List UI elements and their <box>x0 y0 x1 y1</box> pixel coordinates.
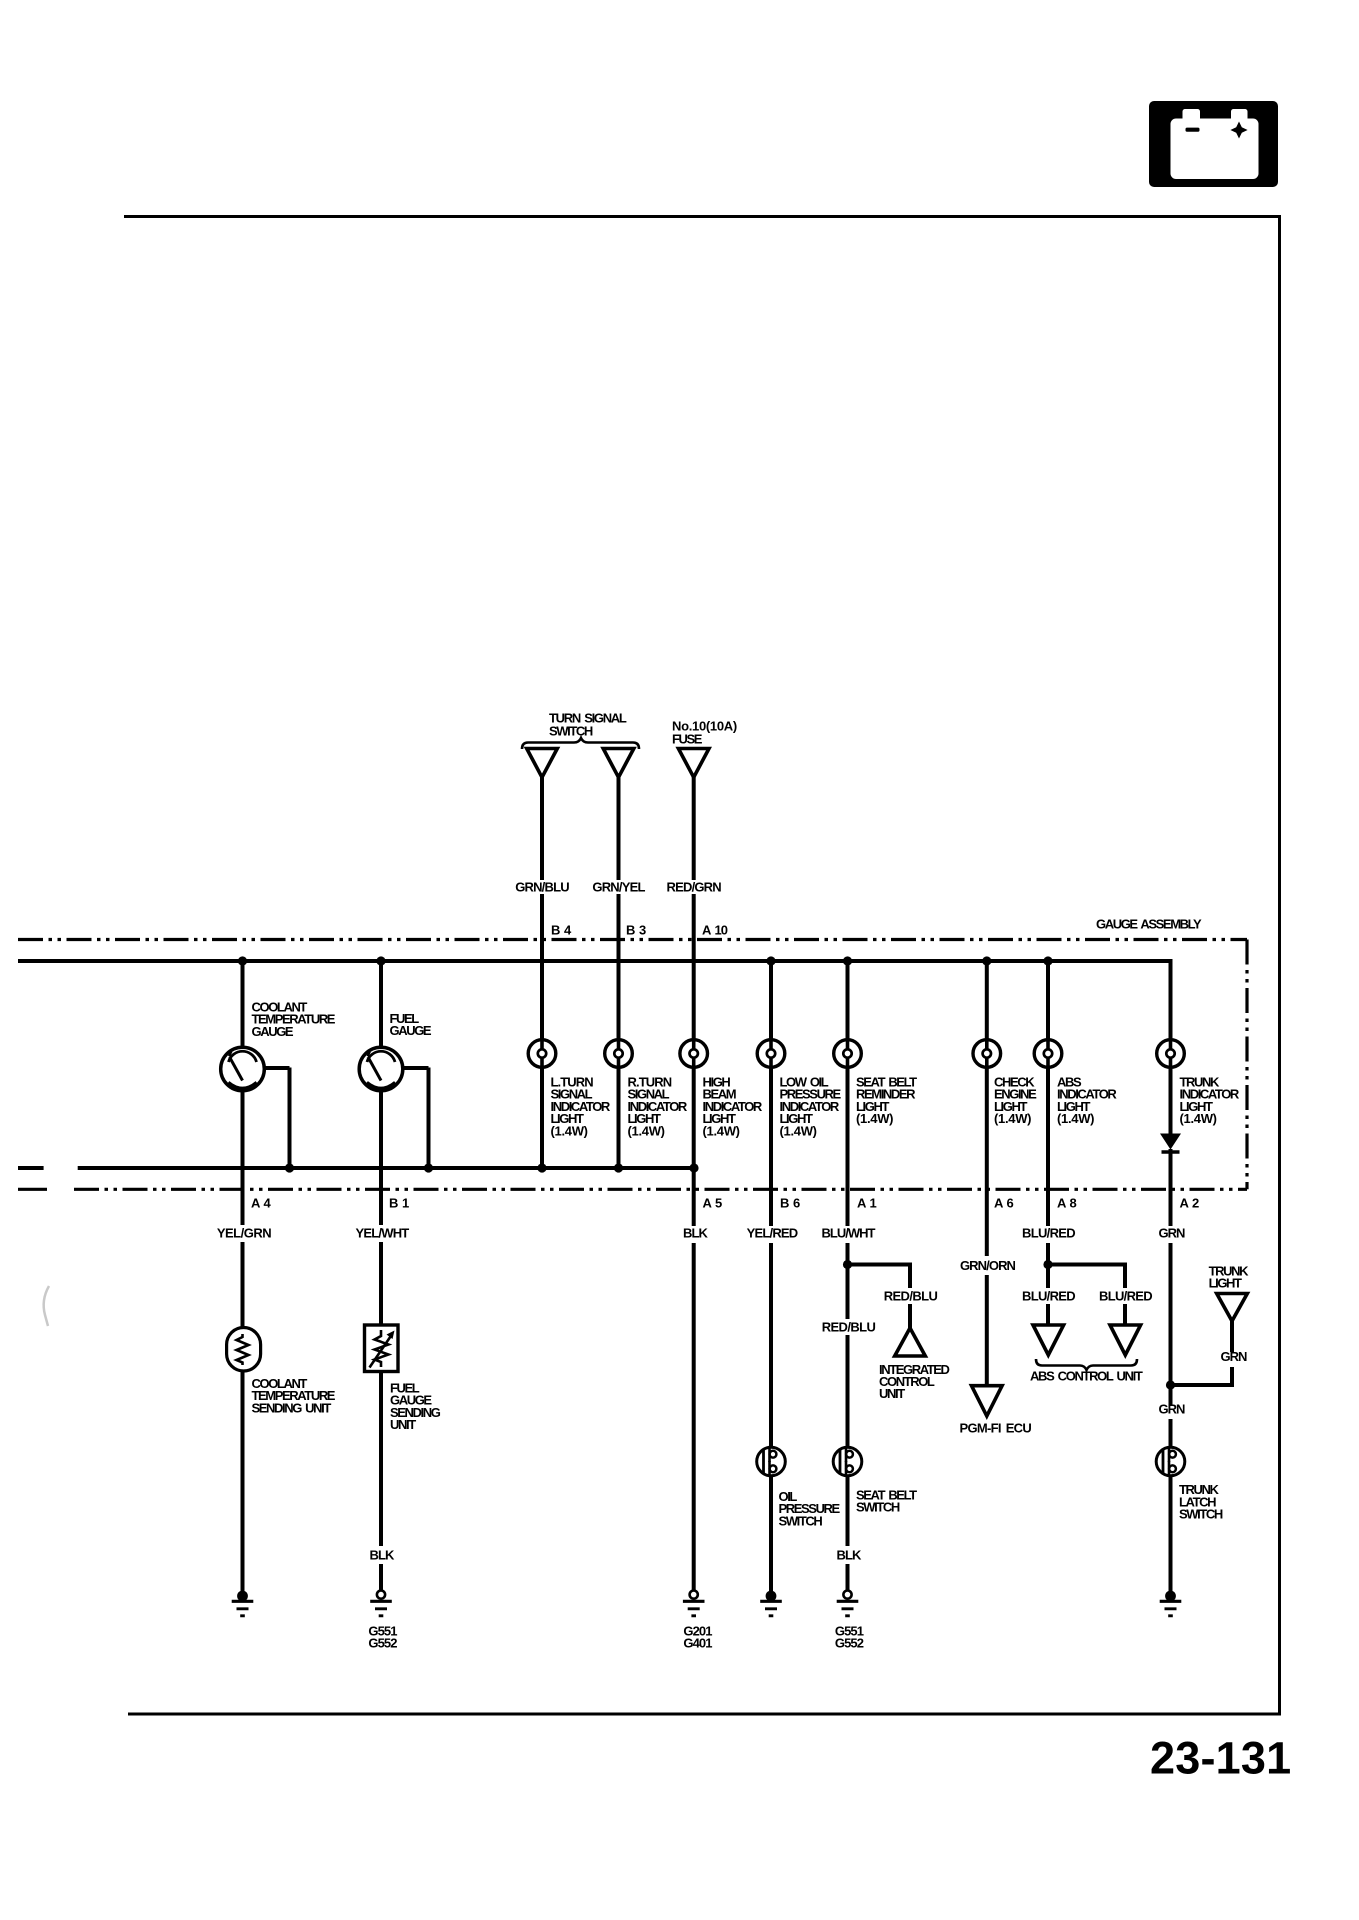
svg-text:G552: G552 <box>368 1636 397 1651</box>
svg-text:SWITCH: SWITCH <box>1179 1507 1223 1522</box>
label A5 <box>703 1196 723 1211</box>
wire A8 BLU/RED vertical <box>1046 961 1050 1327</box>
svg-text:A 4: A 4 <box>251 1196 272 1211</box>
label RED/BLU (main) <box>822 1320 876 1335</box>
svg-text:(1.4W): (1.4W) <box>1180 1111 1217 1126</box>
wire A1 branch to integrated control unit <box>846 1263 911 1330</box>
node dots on ground bus <box>285 1163 699 1172</box>
wire B6 YEL/RED vertical <box>769 961 773 1449</box>
node A1 branch <box>843 1260 852 1269</box>
power bus (top solid) <box>18 959 1173 963</box>
fuel gauge sending unit (variable resistor) <box>365 1325 399 1372</box>
coolant temperature sending unit (thermistor) <box>227 1328 261 1372</box>
node A8 branch <box>1043 1260 1052 1269</box>
wire trunk latch switch to ground <box>1169 1475 1173 1593</box>
svg-text:GAUGE: GAUGE <box>390 1023 432 1038</box>
wire fuel gauge to ground bus (loop) <box>402 1068 429 1169</box>
wire diode to A2 / GRN <box>1169 1149 1173 1387</box>
svg-text:(1.4W): (1.4W) <box>628 1123 665 1138</box>
label No.10(10A) FUSE <box>672 719 737 747</box>
svg-text:(1.4W): (1.4W) <box>780 1123 817 1138</box>
svg-text:LIGHT: LIGHT <box>1209 1276 1242 1291</box>
label SEAT BELT REMINDER LIGHT (1.4W) <box>856 1075 917 1127</box>
label FUEL GAUGE SENDING UNIT <box>390 1381 441 1433</box>
label TURN SIGNAL SWITCH <box>549 711 627 739</box>
svg-text:BLK: BLK <box>683 1226 709 1241</box>
svg-text:RED/BLU: RED/BLU <box>822 1320 876 1335</box>
fuel gauge (meter symbol) <box>359 1047 403 1091</box>
wire RED/GRN (A10 vertical, upper) <box>692 775 696 1040</box>
svg-text:A 8: A 8 <box>1057 1196 1077 1211</box>
label B6 <box>780 1196 800 1211</box>
wire coolant gauge sender side (A4 vertical) <box>241 1091 245 1329</box>
svg-text:B 1: B 1 <box>389 1196 409 1211</box>
page border right <box>1278 215 1281 1714</box>
label YEL/GRN <box>217 1226 271 1241</box>
label BLU/RED (left pin) <box>1022 1289 1075 1304</box>
wire GRN/BLU (B4 vertical, upper) <box>540 775 544 1040</box>
label YEL/WHT <box>356 1226 410 1241</box>
connector triangle A10 (fuse) <box>678 749 709 778</box>
label GAUGE ASSEMBLY <box>1096 917 1202 932</box>
wire A1 BLU/WHT vertical <box>846 961 850 1449</box>
wire A8 branch to second ABS pin <box>1046 1263 1125 1327</box>
svg-text:GAUGE: GAUGE <box>252 1024 294 1039</box>
label TRUNK LIGHT <box>1209 1264 1250 1291</box>
label A6 <box>994 1196 1014 1211</box>
oil pressure switch <box>757 1447 786 1476</box>
node dots on power bus <box>238 956 1053 965</box>
svg-text:GRN/ORN: GRN/ORN <box>960 1258 1016 1273</box>
svg-text:GRN/YEL: GRN/YEL <box>592 880 645 895</box>
wire L.TURN bulb to ground bus <box>540 1067 544 1168</box>
label B1 <box>389 1196 409 1211</box>
trunk latch switch <box>1156 1447 1185 1476</box>
label GRN (A2) <box>1159 1226 1186 1241</box>
svg-text:GAUGE ASSEMBLY: GAUGE ASSEMBLY <box>1096 917 1202 932</box>
svg-text:PGM-FI ECU: PGM-FI ECU <box>960 1421 1032 1436</box>
svg-text:G401: G401 <box>683 1636 712 1651</box>
wire trunk bulb to diode <box>1169 1067 1173 1135</box>
pin label A10 <box>702 923 728 938</box>
ground fuel sender (open) <box>370 1591 392 1616</box>
label FUEL GAUGE <box>390 1011 432 1038</box>
wire fuel gauge sender side (B1 vertical) <box>379 1091 383 1327</box>
label BLU/RED (A8) <box>1022 1226 1075 1241</box>
gauge assembly boundary dash-dot top <box>18 938 1247 941</box>
wire fuel sender to ground <box>379 1369 383 1591</box>
brace under ABS connectors <box>1036 1359 1137 1370</box>
wire R.TURN bulb to ground bus <box>617 1067 621 1168</box>
svg-text:SWITCH: SWITCH <box>549 724 593 739</box>
svg-text:(1.4W): (1.4W) <box>1057 1111 1094 1126</box>
svg-text:RED/BLU: RED/BLU <box>884 1289 938 1304</box>
label BLK (seat belt) <box>836 1548 862 1563</box>
pin label B4 <box>551 923 572 938</box>
gauge assembly boundary dash-dot bottom <box>74 1188 1247 1191</box>
svg-text:GRN: GRN <box>1159 1226 1186 1241</box>
wire trunk light branch <box>1169 1319 1233 1387</box>
svg-text:BLU/RED: BLU/RED <box>1099 1289 1152 1304</box>
svg-text:BLK: BLK <box>369 1548 395 1563</box>
svg-text:B 3: B 3 <box>626 923 646 938</box>
svg-text:BLU/RED: BLU/RED <box>1022 1289 1075 1304</box>
connector triangle TRUNK LIGHT <box>1217 1294 1248 1322</box>
label GRN (trunk light) <box>1221 1349 1248 1364</box>
svg-text:23-131: 23-131 <box>1150 1733 1291 1784</box>
svg-text:GRN: GRN <box>1159 1402 1186 1417</box>
diode (trunk indicator) <box>1160 1134 1181 1153</box>
wire coolant sender to ground <box>241 1369 245 1592</box>
svg-text:SWITCH: SWITCH <box>779 1513 823 1528</box>
label G551 G552 (fuel sender) <box>368 1624 397 1651</box>
label COOLANT TEMPERATURE GAUGE <box>252 1000 336 1039</box>
svg-text:YEL/GRN: YEL/GRN <box>217 1226 271 1241</box>
wire A5 BLK vertical <box>692 1168 696 1591</box>
wire oil pressure switch to ground <box>769 1475 773 1593</box>
bulb SEAT BELT reminder light <box>834 1038 862 1069</box>
label SEAT BELT SWITCH <box>856 1488 917 1515</box>
wire fuel gauge feed <box>379 961 383 1049</box>
label G551 G552 (seat belt) <box>835 1624 864 1651</box>
svg-text:GRN: GRN <box>1221 1349 1248 1364</box>
ground seat belt switch (open) <box>837 1591 859 1616</box>
label ABS INDICATOR LIGHT (1.4W) <box>1057 1075 1117 1127</box>
svg-text:SENDING UNIT: SENDING UNIT <box>252 1400 332 1415</box>
svg-text:A 1: A 1 <box>857 1196 877 1211</box>
page number 23-131 <box>1150 1733 1291 1784</box>
svg-text:(1.4W): (1.4W) <box>856 1111 893 1126</box>
wire coolant gauge to ground bus (loop) <box>263 1068 290 1169</box>
ground coolant sender (filled) <box>232 1591 254 1616</box>
wire trunk junction to latch switch <box>1169 1385 1173 1449</box>
label L.TURN SIGNAL INDICATOR LIGHT (1.4W) <box>551 1075 611 1139</box>
connector triangle ABS control unit left <box>1033 1325 1064 1355</box>
label BLK (A5) <box>683 1226 709 1241</box>
svg-text:BLK: BLK <box>836 1548 862 1563</box>
label COOLANT TEMPERATURE SENDING UNIT <box>252 1376 336 1415</box>
bulb CHECK ENGINE light <box>973 1038 1001 1069</box>
svg-text:(1.4W): (1.4W) <box>994 1111 1031 1126</box>
svg-text:GRN/BLU: GRN/BLU <box>515 880 569 895</box>
wire seat belt switch to ground <box>846 1475 850 1591</box>
label RED/BLU (branch) <box>884 1289 938 1304</box>
label TRUNK INDICATOR LIGHT (1.4W) <box>1180 1075 1240 1127</box>
svg-text:(1.4W): (1.4W) <box>703 1123 740 1138</box>
page border bottom <box>128 1713 1281 1716</box>
svg-text:B 4: B 4 <box>551 923 572 938</box>
wire coolant gauge feed <box>241 961 245 1049</box>
gauge assembly boundary dash-dot bottom stub <box>18 1188 47 1191</box>
bulb TRUNK indicator light <box>1157 1038 1185 1069</box>
bulb LOW OIL PRESSURE indicator light <box>757 1038 785 1069</box>
svg-text:YEL/RED: YEL/RED <box>747 1226 798 1241</box>
label A1 <box>857 1196 877 1211</box>
label TRUNK LATCH SWITCH <box>1179 1482 1223 1521</box>
connector triangle ABS control unit right <box>1110 1325 1141 1355</box>
label GRN/YEL <box>592 880 645 895</box>
label GRN (latch) <box>1159 1402 1186 1417</box>
label INTEGRATED CONTROL UNIT <box>879 1362 950 1401</box>
node trunk junction <box>1166 1380 1175 1389</box>
connector triangle B3 (turn signal switch right) <box>603 749 634 778</box>
bulb ABS indicator light <box>1034 1038 1062 1069</box>
scan artifact (faint) <box>44 1286 49 1326</box>
label RED/GRN <box>667 880 722 895</box>
svg-text:FUSE: FUSE <box>672 732 703 747</box>
label CHECK ENGINE LIGHT (1.4W) <box>994 1075 1037 1127</box>
wire HIGH BEAM bulb to ground bus / A5 <box>692 1067 696 1168</box>
label GRN/ORN <box>960 1258 1016 1273</box>
connector triangle PGM-FI ECU <box>972 1386 1003 1416</box>
label BLU/WHT <box>822 1226 876 1241</box>
label ABS CONTROL UNIT <box>1030 1369 1143 1384</box>
connector triangle B4 (turn signal switch left) <box>527 749 558 778</box>
ground oil pressure switch (filled) <box>760 1591 782 1616</box>
label GRN/BLU <box>515 880 569 895</box>
svg-text:A 6: A 6 <box>994 1196 1014 1211</box>
page border top <box>124 215 1281 218</box>
svg-text:A 2: A 2 <box>1180 1196 1200 1211</box>
ground trunk latch switch (filled) <box>1160 1591 1182 1616</box>
wire GRN/YEL (B3 vertical, upper) <box>617 775 621 1040</box>
label BLK (fuel sender) <box>369 1548 395 1563</box>
ground bus (lower solid) <box>78 1166 694 1170</box>
bulb R.TURN signal indicator light <box>605 1038 633 1069</box>
connector triangle INTEGRATED CONTROL UNIT <box>895 1328 926 1356</box>
wire A6 GRN/ORN vertical <box>985 961 989 1387</box>
svg-text:ABS CONTROL UNIT: ABS CONTROL UNIT <box>1030 1369 1143 1384</box>
coolant temperature gauge (meter symbol) <box>221 1047 265 1091</box>
label A2 <box>1180 1196 1200 1211</box>
svg-text:UNIT: UNIT <box>879 1386 905 1401</box>
bulb HIGH BEAM indicator light <box>680 1038 708 1069</box>
label G201 G401 <box>683 1624 712 1651</box>
svg-text:RED/GRN: RED/GRN <box>667 880 722 895</box>
brace over turn signal switch connectors <box>522 738 639 749</box>
svg-text:B 6: B 6 <box>780 1196 800 1211</box>
svg-text:(1.4W): (1.4W) <box>551 1123 588 1138</box>
pin label B3 <box>626 923 646 938</box>
ground bus stub (lower solid, left) <box>18 1166 44 1170</box>
svg-text:BLU/WHT: BLU/WHT <box>822 1226 876 1241</box>
seat belt switch <box>833 1447 862 1476</box>
gauge assembly boundary dash-dot right <box>1245 940 1248 1190</box>
label BLU/RED (right pin) <box>1099 1289 1152 1304</box>
label R.TURN SIGNAL INDICATOR LIGHT (1.4W) <box>628 1075 688 1139</box>
label LOW OIL PRESSURE INDICATOR LIGHT (1.4W) <box>780 1075 842 1139</box>
svg-text:YEL/WHT: YEL/WHT <box>356 1226 410 1241</box>
label A8 <box>1057 1196 1077 1211</box>
svg-text:SWITCH: SWITCH <box>856 1500 900 1515</box>
battery symbol (page corner icon) <box>1149 101 1278 187</box>
label A4 <box>251 1196 272 1211</box>
ground G201/G401 (open) <box>683 1591 705 1616</box>
label OIL PRESSURE SWITCH <box>779 1489 841 1528</box>
svg-text:A 5: A 5 <box>703 1196 723 1211</box>
svg-text:UNIT: UNIT <box>390 1417 416 1432</box>
label HIGH BEAM INDICATOR LIGHT (1.4W) <box>703 1075 763 1139</box>
label YEL/RED <box>747 1226 798 1241</box>
wire power bus corner to trunk bulb <box>1169 959 1173 1040</box>
svg-text:G552: G552 <box>835 1636 864 1651</box>
bulb L.TURN signal indicator light <box>528 1038 556 1069</box>
label PGM-FI ECU <box>960 1421 1032 1436</box>
svg-text:A 10: A 10 <box>702 923 728 938</box>
svg-text:BLU/RED: BLU/RED <box>1022 1226 1075 1241</box>
